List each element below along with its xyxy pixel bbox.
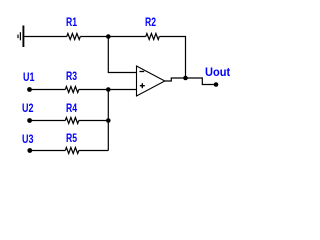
label R3 bbox=[66, 73, 77, 81]
label U2 bbox=[22, 105, 33, 113]
resistor R1 bbox=[67, 34, 81, 40]
resistor R4 bbox=[65, 118, 79, 124]
node output junction bbox=[183, 76, 188, 81]
wire bus bbox=[107, 90, 109, 151]
wire bbox=[186, 78, 214, 85]
node junction R4 bus bbox=[106, 118, 111, 123]
wire bbox=[23, 36, 66, 38]
node junction R3 bus bbox=[106, 87, 111, 92]
node terminal U1 bbox=[27, 87, 32, 92]
wire bbox=[30, 89, 66, 91]
resistor R2 bbox=[146, 34, 160, 40]
wire bbox=[108, 37, 136, 73]
label U1 bbox=[23, 74, 34, 82]
label R4 bbox=[66, 105, 77, 113]
label R1 bbox=[66, 19, 77, 27]
node terminal Uout bbox=[214, 82, 219, 87]
node terminal U3 bbox=[27, 148, 32, 153]
wire bbox=[79, 150, 109, 152]
op-amp U1 bbox=[137, 66, 165, 96]
wire bbox=[79, 89, 137, 91]
wire bbox=[80, 36, 146, 38]
wire bbox=[30, 150, 66, 152]
label R2 bbox=[145, 19, 156, 27]
wire bbox=[159, 37, 185, 79]
node junction R1-R2 feedback bbox=[106, 34, 111, 39]
label R5 bbox=[66, 135, 77, 143]
node terminal U2 bbox=[27, 118, 32, 123]
wire bbox=[165, 78, 186, 81]
label Uout bbox=[205, 69, 230, 77]
resistor R3 bbox=[65, 87, 79, 93]
ground bbox=[18, 26, 23, 48]
label U3 bbox=[22, 136, 33, 144]
resistor R5 bbox=[65, 148, 79, 154]
wire bbox=[79, 120, 109, 122]
wire bbox=[30, 120, 66, 122]
